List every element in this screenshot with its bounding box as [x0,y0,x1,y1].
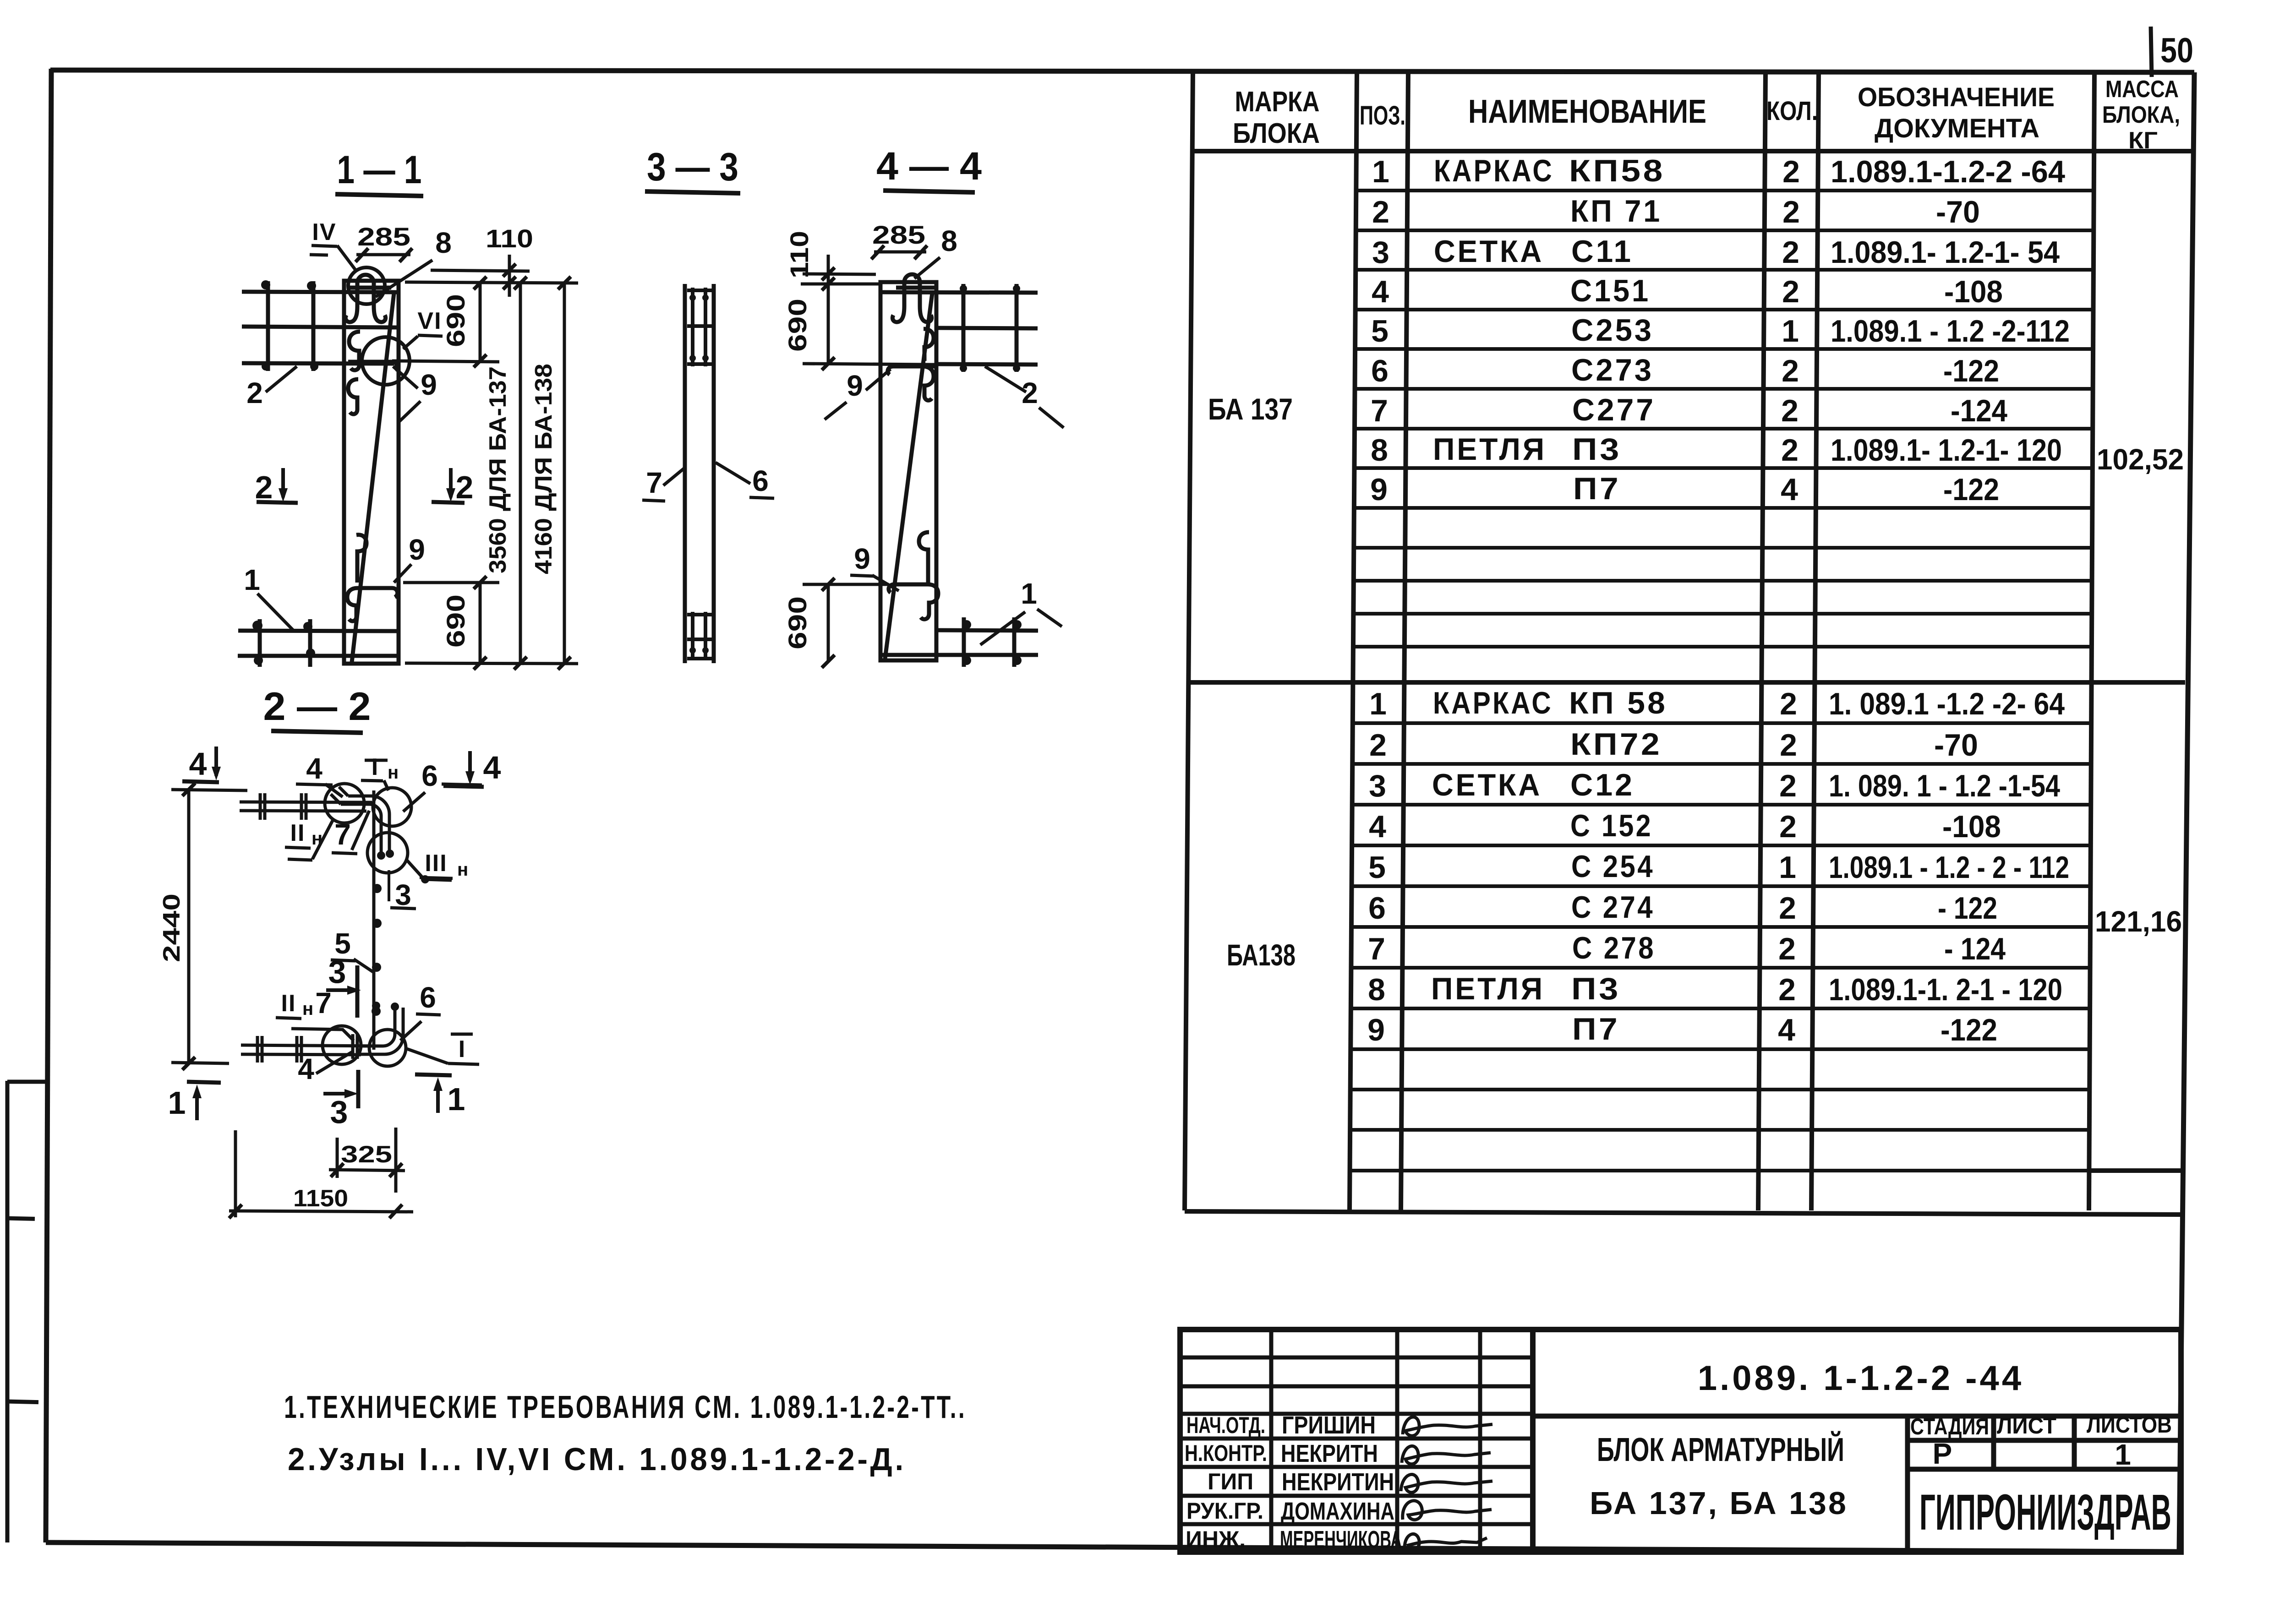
section marker 4 top-right 2-2 [443,750,501,787]
svg-text:П7: П7 [1572,1012,1620,1046]
svg-text:П3: П3 [1572,432,1622,467]
svg-text:2: 2 [1022,376,1038,409]
svg-text:690: 690 [441,294,470,347]
label 9 lower 4-4 with leader [850,542,899,591]
svg-text:8: 8 [1371,433,1388,468]
svg-text:285: 285 [872,220,925,249]
svg-text:БЛОКА,: БЛОКА, [2102,102,2180,128]
svg-text:С 278: С 278 [1572,931,1656,965]
svg-text:1 — 1: 1 — 1 [337,148,422,192]
svg-text:С277: С277 [1572,392,1656,427]
svg-text:1: 1 [1369,687,1387,721]
svg-text:2: 2 [1372,195,1389,229]
svg-text:I: I [372,754,378,780]
label 6 top 2-2 with leader [403,759,482,812]
svg-text:690: 690 [441,594,470,648]
svg-text:2: 2 [1781,433,1798,468]
TITLE-BLOCK texts [1590,1359,2172,1541]
svg-text:III: III [425,850,447,877]
section marker 2 right 1-1 [432,468,473,505]
svg-text:1.089.1-1. 2-1 - 120: 1.089.1-1. 2-1 - 120 [1829,972,2062,1007]
label 1 4-4 with leader [980,577,1062,645]
svg-text:6: 6 [1368,891,1386,926]
label IIн 2-2 with leader [285,819,333,860]
title 2-2 [263,685,371,733]
svg-text:2: 2 [1782,195,1800,229]
svg-text:7: 7 [315,986,332,1019]
label 2 1-1 with leader [246,366,297,409]
svg-text:3: 3 [328,954,346,990]
label 6 lower 2-2 with leader [400,981,441,1041]
svg-text:ЛИСТОВ: ЛИСТОВ [2087,1412,2172,1438]
lower labels IIн 7 2-2 [276,986,354,1041]
svg-text:3: 3 [1372,235,1389,270]
svg-text:2: 2 [1779,809,1797,844]
svg-text:БА138: БА138 [1227,938,1296,972]
svg-text:1.ТЕХНИЧЕСКИЕ ТРЕБОВАНИЯ СМ. 1: 1.ТЕХНИЧЕСКИЕ ТРЕБОВАНИЯ СМ. 1.089.1-1.2… [284,1389,967,1425]
svg-text:КП58: КП58 [1569,153,1665,188]
svg-text:690: 690 [783,299,812,352]
svg-text:2: 2 [1779,768,1797,803]
top corner bar 2-2 [331,787,389,856]
svg-text:9: 9 [854,542,870,575]
svg-text:1.089.1 - 1.2 -2-112: 1.089.1 - 1.2 -2-112 [1831,314,2070,349]
loop П3 top (item 8) 4-4 [892,274,938,322]
svg-text:НАИМЕНОВАНИЕ: НАИМЕНОВАНИЕ [1468,93,1706,130]
svg-text:С 254: С 254 [1571,849,1655,884]
svg-text:-70: -70 [1934,728,1978,763]
svg-text:II: II [290,820,306,846]
svg-text:СТАДИЯ: СТАДИЯ [1910,1414,1989,1439]
svg-text:С12: С12 [1570,768,1634,802]
svg-text:- 122: - 122 [1938,891,1997,926]
узел VI circle 1-1 [362,337,410,385]
dim 1150 2-2 [229,1130,413,1218]
svg-text:4: 4 [1778,1013,1795,1047]
svg-text:110: 110 [486,224,533,253]
label 8 1-1 with leader [376,226,452,297]
bottom corner bar 2-2 [353,1006,403,1059]
svg-text:КАРКАС: КАРКАС [1433,686,1553,720]
узел I circle 2-2 [369,1030,406,1066]
hooks (item 9) mid 1-1 [348,332,397,414]
svg-text:1: 1 [1021,577,1037,610]
svg-text:8: 8 [1368,972,1385,1007]
column outline 4-4 [880,282,936,660]
svg-text:НЕКРИТН: НЕКРИТН [1281,1440,1378,1467]
svg-text:2: 2 [456,469,474,505]
svg-text:5: 5 [1368,850,1386,885]
svg-text:3 — 3: 3 — 3 [647,145,738,189]
svg-text:КП 71: КП 71 [1570,194,1662,229]
svg-text:-122: -122 [1941,1013,1997,1047]
label I 2-2 with leader [407,1034,479,1064]
svg-text:1: 1 [1782,314,1799,349]
label 2 4-4 with leader [985,366,1064,428]
svg-text:С11: С11 [1571,234,1633,269]
label VI 1-1 [403,308,443,349]
label 6 3-3 with leader [716,463,774,498]
svg-text:1: 1 [168,1085,186,1121]
section marker 3 lower 2-2 [323,1070,358,1130]
title 3-3 [645,145,740,193]
svg-text:КП 58: КП 58 [1569,686,1667,720]
svg-text:ГРИШИН: ГРИШИН [1282,1411,1376,1439]
svg-text:2: 2 [1782,274,1799,309]
svg-text:2: 2 [1781,393,1798,428]
svg-text:9: 9 [1370,472,1388,507]
svg-text:МАССА: МАССА [2105,76,2179,103]
svg-text:9: 9 [409,533,425,566]
узел IV circle 1-1 [348,267,385,304]
svg-text:285: 285 [357,222,410,251]
top flange mesh 2-2 [240,793,372,820]
svg-text:ЛИСТ: ЛИСТ [1997,1413,2056,1439]
svg-text:4 — 4: 4 — 4 [876,144,982,188]
label Iн 2-2 [361,754,399,790]
svg-text:С 274: С 274 [1571,890,1655,925]
svg-text:9: 9 [847,369,863,402]
svg-text:С253: С253 [1571,313,1654,348]
svg-text:ДОМАХИНА: ДОМАХИНА [1281,1498,1394,1525]
svg-text:6: 6 [752,464,769,497]
label 9 lower 1-1 with leader [394,533,425,583]
svg-text:VI: VI [417,308,442,334]
svg-text:1150: 1150 [293,1185,348,1212]
BINDING-STRIP [6,1081,48,1542]
svg-text:1: 1 [244,563,260,596]
svg-text:3560 ДЛЯ БА-137: 3560 ДЛЯ БА-137 [485,366,511,573]
svg-text:II: II [281,990,296,1017]
dim 690 top 1-1 [392,277,499,367]
svg-text:-108: -108 [1944,274,2003,309]
lower hooks (item 9) 4-4 [889,532,938,619]
label 1 1-1 with leader [244,563,293,630]
svg-text:НЕКРИТИН: НЕКРИТИН [1282,1468,1394,1496]
svg-text:I: I [459,1036,465,1063]
svg-text:2: 2 [1782,354,1799,388]
bottom insert 3-3 [687,612,712,660]
svg-text:4: 4 [1369,809,1386,844]
svg-text:БЛОК АРМАТУРНЫЙ: БЛОК АРМАТУРНЫЙ [1597,1431,1844,1468]
loop П3 top (item 8) 1-1 [345,275,391,322]
svg-text:2 — 2: 2 — 2 [263,685,371,729]
svg-text:Р: Р [1933,1437,1952,1470]
svg-text:121,16: 121,16 [2095,905,2182,938]
svg-text:С273: С273 [1571,353,1654,387]
label 5 2-2 with leader [331,927,373,972]
lower hooks (item 9) 1-1 [347,535,398,621]
svg-text:ПЕТЛЯ: ПЕТЛЯ [1433,432,1547,467]
svg-text:1. 089. 1 - 1.2 -1-54: 1. 089. 1 - 1.2 -1-54 [1829,768,2060,803]
long dims 3560/4160 1-1 [405,277,578,670]
svg-text:1. 089.1 -1.2 -2- 64: 1. 089.1 -1.2 -2- 64 [1829,687,2065,721]
svg-text:-122: -122 [1943,354,1999,388]
TABLE-ROWS-BA137 [1370,153,2070,507]
svg-text:КОЛ.: КОЛ. [1766,96,1818,126]
svg-text:2: 2 [1782,235,1799,270]
svg-text:4: 4 [306,752,323,785]
TABLE-HEADER-TEXT [1233,76,2180,154]
svg-text:6: 6 [420,981,436,1014]
svg-text:НАЧ.ОТД.: НАЧ.ОТД. [1186,1412,1265,1438]
svg-text:С 152: С 152 [1570,808,1653,843]
svg-text:1: 1 [1372,154,1389,189]
svg-text:С151: С151 [1570,273,1651,308]
svg-text:ИНЖ.: ИНЖ. [1186,1526,1246,1552]
узел IIIн circle 2-2 [367,833,408,873]
svg-text:КАРКАС: КАРКАС [1434,153,1554,188]
section marker 4 top-left 2-2 [182,746,221,782]
svg-text:2: 2 [1780,687,1797,721]
section marker 3 upper 2-2 [326,954,361,1018]
dim 690 top 4-4 [783,284,935,370]
svg-text:н: н [302,999,313,1019]
svg-text:ОБОЗНАЧЕНИЕ: ОБОЗНАЧЕНИЕ [1858,82,2055,112]
svg-text:8: 8 [435,226,452,259]
section marker 2 left 1-1 [255,468,298,505]
svg-text:ПОЗ.: ПОЗ. [1360,101,1405,131]
svg-text:2: 2 [1780,728,1797,763]
bottom mesh 4-4 (item 1) [881,617,1038,667]
svg-text:Н.КОНТР.: Н.КОНТР. [1185,1440,1267,1466]
svg-text:6: 6 [1371,354,1388,388]
TABLE-ROWS-BA138 [1367,686,2069,1047]
label IIIн 2-2 with leader [407,850,468,883]
svg-text:БА 137, БА 138: БА 137, БА 138 [1590,1485,1848,1521]
svg-text:ГИПРОНИИЗДРАВ: ГИПРОНИИЗДРАВ [1919,1484,2171,1541]
TITLE-BLOCK signature grid [1180,1330,1533,1552]
svg-text:ПЕТЛЯ: ПЕТЛЯ [1431,971,1545,1006]
svg-text:4: 4 [189,746,207,782]
svg-text:- 124: - 124 [1944,932,2006,966]
svg-text:2: 2 [246,376,263,409]
svg-text:П3: П3 [1571,971,1621,1006]
svg-text:4: 4 [1372,274,1389,309]
dim 110 4-4 [785,231,879,300]
svg-text:2: 2 [1778,972,1796,1007]
svg-text:9: 9 [421,368,437,401]
svg-text:1: 1 [1779,850,1796,885]
svg-text:9: 9 [1367,1013,1385,1047]
svg-text:н: н [388,763,399,783]
svg-text:2.Узлы I... IV,VI СМ. 1.08: 2.Узлы I... IV,VI СМ. 1.089.1-1.2-2-Д. [288,1441,906,1477]
column outline 1-1 [344,281,399,664]
svg-text:7: 7 [334,818,351,851]
svg-text:4: 4 [1781,472,1798,507]
dim 285 top 1-1 [355,222,412,262]
header bottom, section divider, table bottom : full width [1194,149,2192,153]
svg-text:1.089. 1-1.2-2 -44: 1.089. 1-1.2-2 -44 [1698,1359,2024,1398]
svg-text:-108: -108 [1942,809,2001,844]
svg-text:МАРКА: МАРКА [1235,86,1320,118]
mesh top-right 4-4 (item 2) [882,284,1038,372]
svg-text:-124: -124 [1951,393,2007,428]
top insert 3-3 [687,288,712,366]
svg-text:СЕТКА: СЕТКА [1432,768,1542,802]
svg-text:7: 7 [1371,393,1388,428]
svg-text:БА 137: БА 137 [1208,392,1293,426]
svg-text:1.089.1 - 1.2 - 2 - 112: 1.089.1 - 1.2 - 2 - 112 [1829,850,2069,885]
svg-text:4: 4 [483,750,501,785]
svg-text:1: 1 [448,1081,465,1117]
svg-text:2: 2 [1369,728,1387,763]
узел IIн circle bottom 2-2 [323,1026,361,1064]
svg-text:IV: IV [312,219,336,245]
svg-text:КГ: КГ [2128,127,2158,154]
TITLE-BLOCK right grid [1533,1416,2181,1552]
svg-text:СЕТКА: СЕТКА [1434,234,1544,269]
TITLE-BLOCK signatures (squiggles) [1401,1417,1492,1549]
svg-text:МЕРЕНЧИКОВА: МЕРЕНЧИКОВА [1280,1526,1402,1553]
label 9 upper 1-1 with leader [393,366,437,421]
dim 690 bottom 4-4 [783,578,889,668]
svg-text:3: 3 [330,1094,348,1130]
dim 690 bottom 1-1 [403,576,499,670]
label IV 1-1 [310,219,356,271]
svg-text:110: 110 [785,231,814,278]
title 1-1 [335,148,423,196]
title 4-4 [876,144,982,192]
svg-text:6: 6 [421,759,438,792]
узел IIн circle top 2-2 [325,784,364,823]
svg-text:4160 ДЛЯ БА-138: 4160 ДЛЯ БА-138 [530,364,557,574]
svg-text:690: 690 [783,596,812,649]
svg-text:1.089.1- 1.2-1- 120: 1.089.1- 1.2-1- 120 [1831,433,2062,468]
svg-text:2: 2 [1782,154,1800,189]
svg-text:2: 2 [1779,891,1796,926]
label 8 4-4 with leader [914,224,957,278]
label 4 bottom 2-2 with leader [298,1052,353,1085]
svg-text:-70: -70 [1936,195,1980,229]
TITLE-BLOCK signature labels [1185,1412,1267,1552]
узел Iн circle 2-2 [373,788,411,826]
svg-text:50: 50 [2160,31,2193,70]
svg-text:-122: -122 [1943,472,1999,507]
svg-text:4: 4 [298,1052,314,1085]
dim 2440 left 2-2 [159,783,247,1070]
dim 325 2-2 [329,1128,405,1193]
hooks (item 9) mid 4-4 [888,329,935,400]
column 3-3 [685,284,714,663]
label 3 2-2 with leader [389,870,416,911]
svg-text:3: 3 [1369,768,1386,803]
label 7 top 2-2 with leader [332,811,369,854]
svg-text:102,52: 102,52 [2097,443,2184,476]
bottom mesh 1-1 (item 1) [238,619,399,667]
TITLE-BLOCK frame [1180,1330,2181,1552]
web line 2-2 (item 5) [372,790,376,1050]
dim 285 top 4-4 [871,220,927,259]
svg-text:1.089.1- 1.2-1- 54: 1.089.1- 1.2-1- 54 [1831,235,2060,270]
mesh top-left 1-1 (item 2) [242,281,398,371]
label 7 3-3 with leader [642,466,684,501]
svg-text:2440: 2440 [159,894,185,962]
svg-text:325: 325 [341,1141,392,1168]
dim 110 top-right 1-1 [405,224,578,297]
svg-text:П7: П7 [1573,471,1621,506]
svg-text:РУК.ГР.: РУК.ГР. [1186,1498,1263,1524]
svg-text:2: 2 [1778,932,1796,966]
TABLE-ROWLINES-BA137 [1352,191,2094,647]
svg-text:1.089.1-1.2-2 -64: 1.089.1-1.2-2 -64 [1831,154,2065,189]
section marker 1 bottom-left 2-2 [168,1082,221,1121]
svg-text:2: 2 [255,469,273,505]
PAGE-NUMBER-50 [2151,27,2193,77]
svg-text:БЛОКА: БЛОКА [1233,118,1320,149]
bottom flange mesh 2-2 [241,1036,383,1063]
svg-text:н: н [457,860,468,880]
svg-text:ДОКУМЕНТА: ДОКУМЕНТА [1875,114,2039,143]
label 4 top 2-2 with leader [296,752,343,797]
TABLE-ROWLINES-BA138 [1350,723,2091,1171]
section marker 1 bottom-right 2-2 [415,1074,465,1117]
TITLE-BLOCK signature names [1280,1411,1402,1553]
svg-text:7: 7 [646,466,662,499]
svg-text:1: 1 [2115,1438,2131,1471]
TABLE-GRID [1185,71,2192,1215]
svg-text:5: 5 [1371,314,1388,349]
svg-text:7: 7 [1368,932,1385,966]
masса column extra line [2089,1168,2183,1173]
verticals [1185,71,1193,1210]
svg-text:8: 8 [941,224,957,257]
svg-text:КП72: КП72 [1570,727,1662,762]
label 9 upper 4-4 with leader [825,369,891,420]
svg-text:ГИП: ГИП [1208,1469,1253,1494]
